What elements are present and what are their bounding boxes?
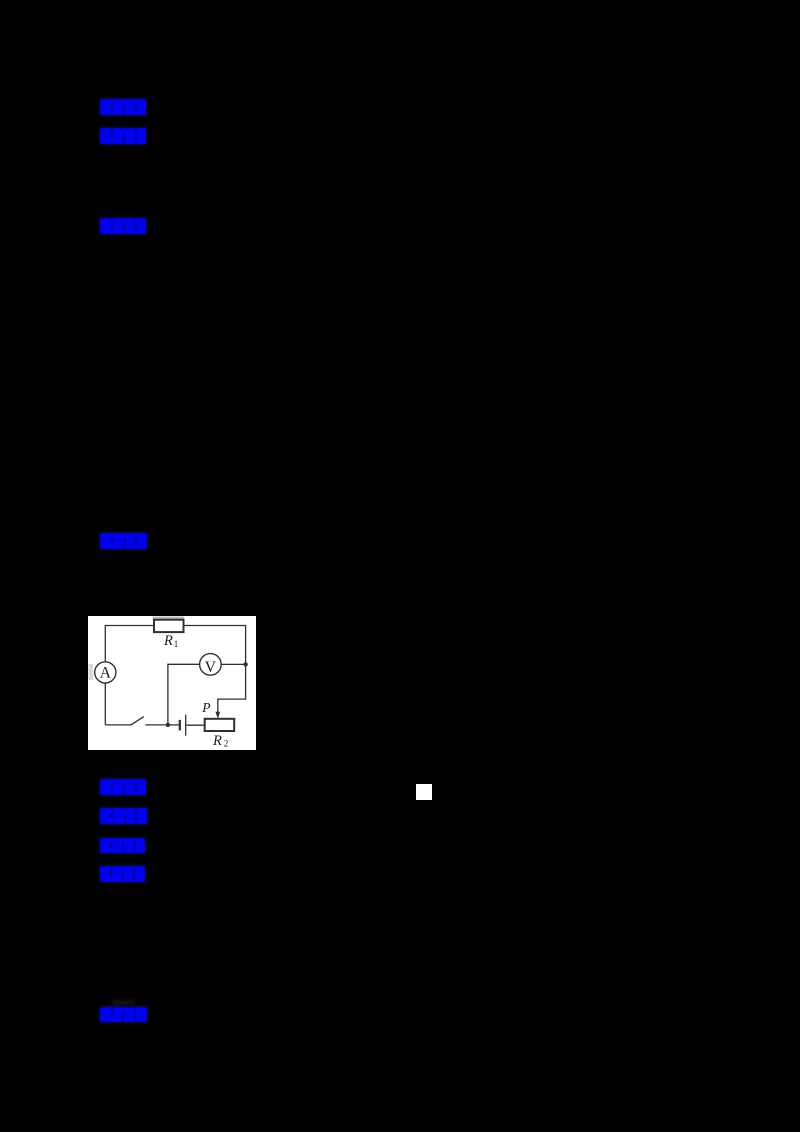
rheostat R2 [205, 719, 235, 731]
wire right vertical to wiper [218, 664, 246, 712]
wire bottom-left horizontal [105, 724, 131, 726]
svg-text:P: P [201, 700, 210, 715]
wire node to battery [168, 724, 179, 726]
switch S blade [131, 716, 144, 724]
node junction dot right [243, 662, 247, 666]
wire switch to node [145, 724, 168, 726]
resistor R1 [154, 619, 184, 631]
svg-text:2: 2 [224, 738, 229, 748]
svg-text:R: R [212, 733, 222, 749]
faint smudge [112, 1000, 135, 1005]
svg-text:A: A [100, 664, 112, 681]
ammeter A1 [95, 662, 116, 683]
battery positive plate [185, 714, 187, 735]
wire node up to voltmeter [168, 664, 200, 725]
blue label 2 [100, 128, 146, 144]
blue label 7 [100, 838, 146, 853]
node junction dot left [166, 722, 170, 726]
blue label 8 [100, 866, 145, 883]
blue label 5 [100, 779, 147, 795]
circuit image block [88, 616, 256, 751]
wire voltmeter to right node [221, 663, 245, 665]
wire battery to rheostat [186, 724, 204, 726]
voltmeter V1 [200, 653, 222, 675]
wire top-right horizontal [184, 625, 246, 664]
svg-text:R: R [163, 633, 173, 649]
wire left vertical lower [104, 683, 106, 725]
gray artifact tab left of ammeter [89, 664, 94, 680]
blue label 3 [100, 218, 146, 234]
white inline square [416, 784, 433, 800]
svg-text:1: 1 [174, 639, 179, 649]
blue label 1 [100, 99, 146, 115]
svg-text:V: V [205, 659, 217, 676]
gray artifact band above R1 [153, 616, 185, 619]
blue label 4 [100, 533, 147, 549]
wiper arrow P [215, 712, 220, 719]
battery negative plate [179, 720, 181, 731]
blue label 9 [100, 1007, 146, 1022]
wire top-left horizontal [105, 625, 154, 661]
blue label 6 [100, 808, 147, 824]
